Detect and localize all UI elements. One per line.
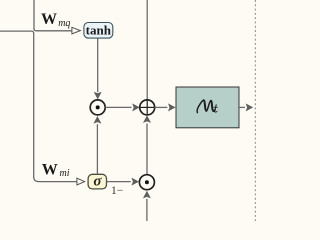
wire bottom input -> odot2 (up)	[146, 199, 148, 221]
svg-text:σ: σ	[93, 174, 102, 190]
wire tanh -> odot1	[97, 38, 99, 92]
arrowhead at output	[246, 103, 254, 111]
wire oplus -> Mt box	[155, 106, 168, 108]
wire sigma -> odot2	[107, 181, 131, 183]
sigma box	[88, 174, 106, 189]
open arrowhead into sigma	[77, 178, 85, 185]
label subscript t of Mt	[214, 105, 217, 113]
arrowhead into oplus (left)	[132, 103, 140, 111]
arrowhead into Mt box	[168, 103, 176, 111]
arrowhead up into oplus (bottom)	[143, 115, 151, 123]
arrowhead up into odot2 (bottom)	[143, 191, 151, 199]
oplus (addition node)	[140, 100, 155, 115]
wire odot1 -> oplus	[105, 106, 131, 108]
wire sigma top -> odot1 bottom (up)	[96, 124, 98, 174]
svg-text:tanh: tanh	[86, 22, 112, 37]
label script-M of Mt	[197, 100, 215, 112]
wire: left input, bends down to sigma	[0, 31, 77, 182]
tanh box	[84, 23, 113, 39]
dashed cell-boundary line (right)	[254, 0, 256, 221]
Mt memory box	[176, 87, 239, 128]
open arrowhead into tanh	[72, 27, 81, 34]
arrowhead into odot2 (left)	[131, 178, 139, 186]
svg-text:1−: 1−	[111, 185, 123, 197]
odot1 (element-wise product)	[90, 100, 105, 115]
wire: top input, bends right to tanh	[34, 0, 72, 31]
odot2 (element-wise product)	[139, 175, 154, 190]
arrowhead up into odot1 (bottom)	[93, 116, 101, 124]
svg-text:W: W	[42, 162, 58, 179]
svg-text:mi: mi	[60, 168, 70, 179]
wire odot2 -> oplus (up)	[146, 124, 148, 175]
svg-text:mq: mq	[58, 18, 70, 29]
svg-text:W: W	[41, 11, 57, 28]
wire Mt -> out (to dashed line)	[239, 106, 245, 108]
wire: top input into oplus	[146, 0, 148, 100]
arrowhead down into odot1	[94, 92, 102, 100]
